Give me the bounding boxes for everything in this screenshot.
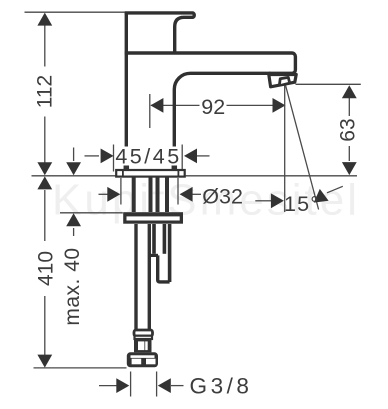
stub tube right [168,224,172,282]
dimension 92 arrow right [273,98,286,113]
dimension 92 line [151,104,284,106]
angle reference vertical line [284,86,286,213]
dimension 410 arrow top [37,176,52,189]
hose valve body [134,339,152,353]
extension line 45/45 right [181,145,183,172]
deck line (countertop) [32,175,358,177]
svg-text:Ø32: Ø32 [202,185,243,209]
dimension 410 line [44,190,46,355]
supply hose left edge [134,224,137,330]
base plate [116,170,185,177]
dimension 63 arrow bottom [342,162,357,175]
extension line nut top (max.40) [60,212,123,214]
svg-text:92: 92 [201,95,225,119]
hose crimp collar [134,330,153,336]
dimension 63 line [348,98,350,161]
handle lever outline [125,13,195,52]
dimension 112 line [44,14,46,174]
G3/8 end fitting [127,352,158,367]
dimension max.40 lower arrow [73,228,75,236]
dimension 45/45 arrow left [85,155,100,157]
svg-text:63: 63 [337,118,360,141]
shank tube right edge [165,177,169,212]
shank pipe line 2 [149,177,153,212]
extension line aerator outlet level (63 top) [296,83,361,85]
extension line diameter32 left [120,178,122,205]
extension line top (handle top level) [25,11,126,13]
svg-text:410: 410 [34,251,57,286]
body foot left [124,166,130,170]
aerator body [269,75,296,87]
angle slanted line 15deg [286,86,319,210]
dimension 112 arrow top [37,13,52,26]
extension line faucet centerline (92 left) [149,94,151,128]
aerator outlet [280,77,290,84]
stub tube step ledge [150,254,158,257]
base plate notch right [177,170,179,177]
dimension 112 arrow bottom [37,162,52,175]
svg-text:15°: 15° [284,192,320,216]
dimension max.40 upper arrow [73,148,75,162]
faucet body left edge [125,13,128,147]
extension line G3/8 right [156,372,158,397]
svg-text:G3/8: G3/8 [190,374,253,399]
dimension 63 arrow top [342,85,357,98]
stub tube lower section [158,255,170,282]
svg-text:max. 40: max. 40 [61,247,84,325]
spout top line [125,53,296,73]
dimension 45/45 arrow right [197,155,210,157]
dimension 92 arrow left [150,98,163,113]
extension line bottom (hose end level) [34,367,127,369]
supply hose right edge [148,224,151,330]
mounting nut [123,212,183,224]
base plate notch left [122,170,124,177]
extension line diameter32 right [177,178,179,205]
dimension G3/8 arrows [99,385,118,387]
dimension diameter32 arrows [99,193,108,195]
stub tube left [152,224,156,254]
spout underside and body right edge [174,73,270,147]
dimension 410 arrow bottom [37,355,52,368]
white backing for 45/45 label [116,147,181,166]
shank pipe line 3 [156,177,160,212]
hose collar band 2 [135,336,153,339]
svg-text:112: 112 [34,75,57,108]
stub tube middle [163,224,167,254]
extension line G3/8 left [130,372,132,397]
svg-text:45/45: 45/45 [115,145,181,169]
extension line 45/45 left [113,145,115,172]
body foot right [172,166,178,170]
angle 15 leader arrow [327,186,343,193]
shank tube left edge [132,177,136,212]
angle 15 left arrow [255,200,271,202]
